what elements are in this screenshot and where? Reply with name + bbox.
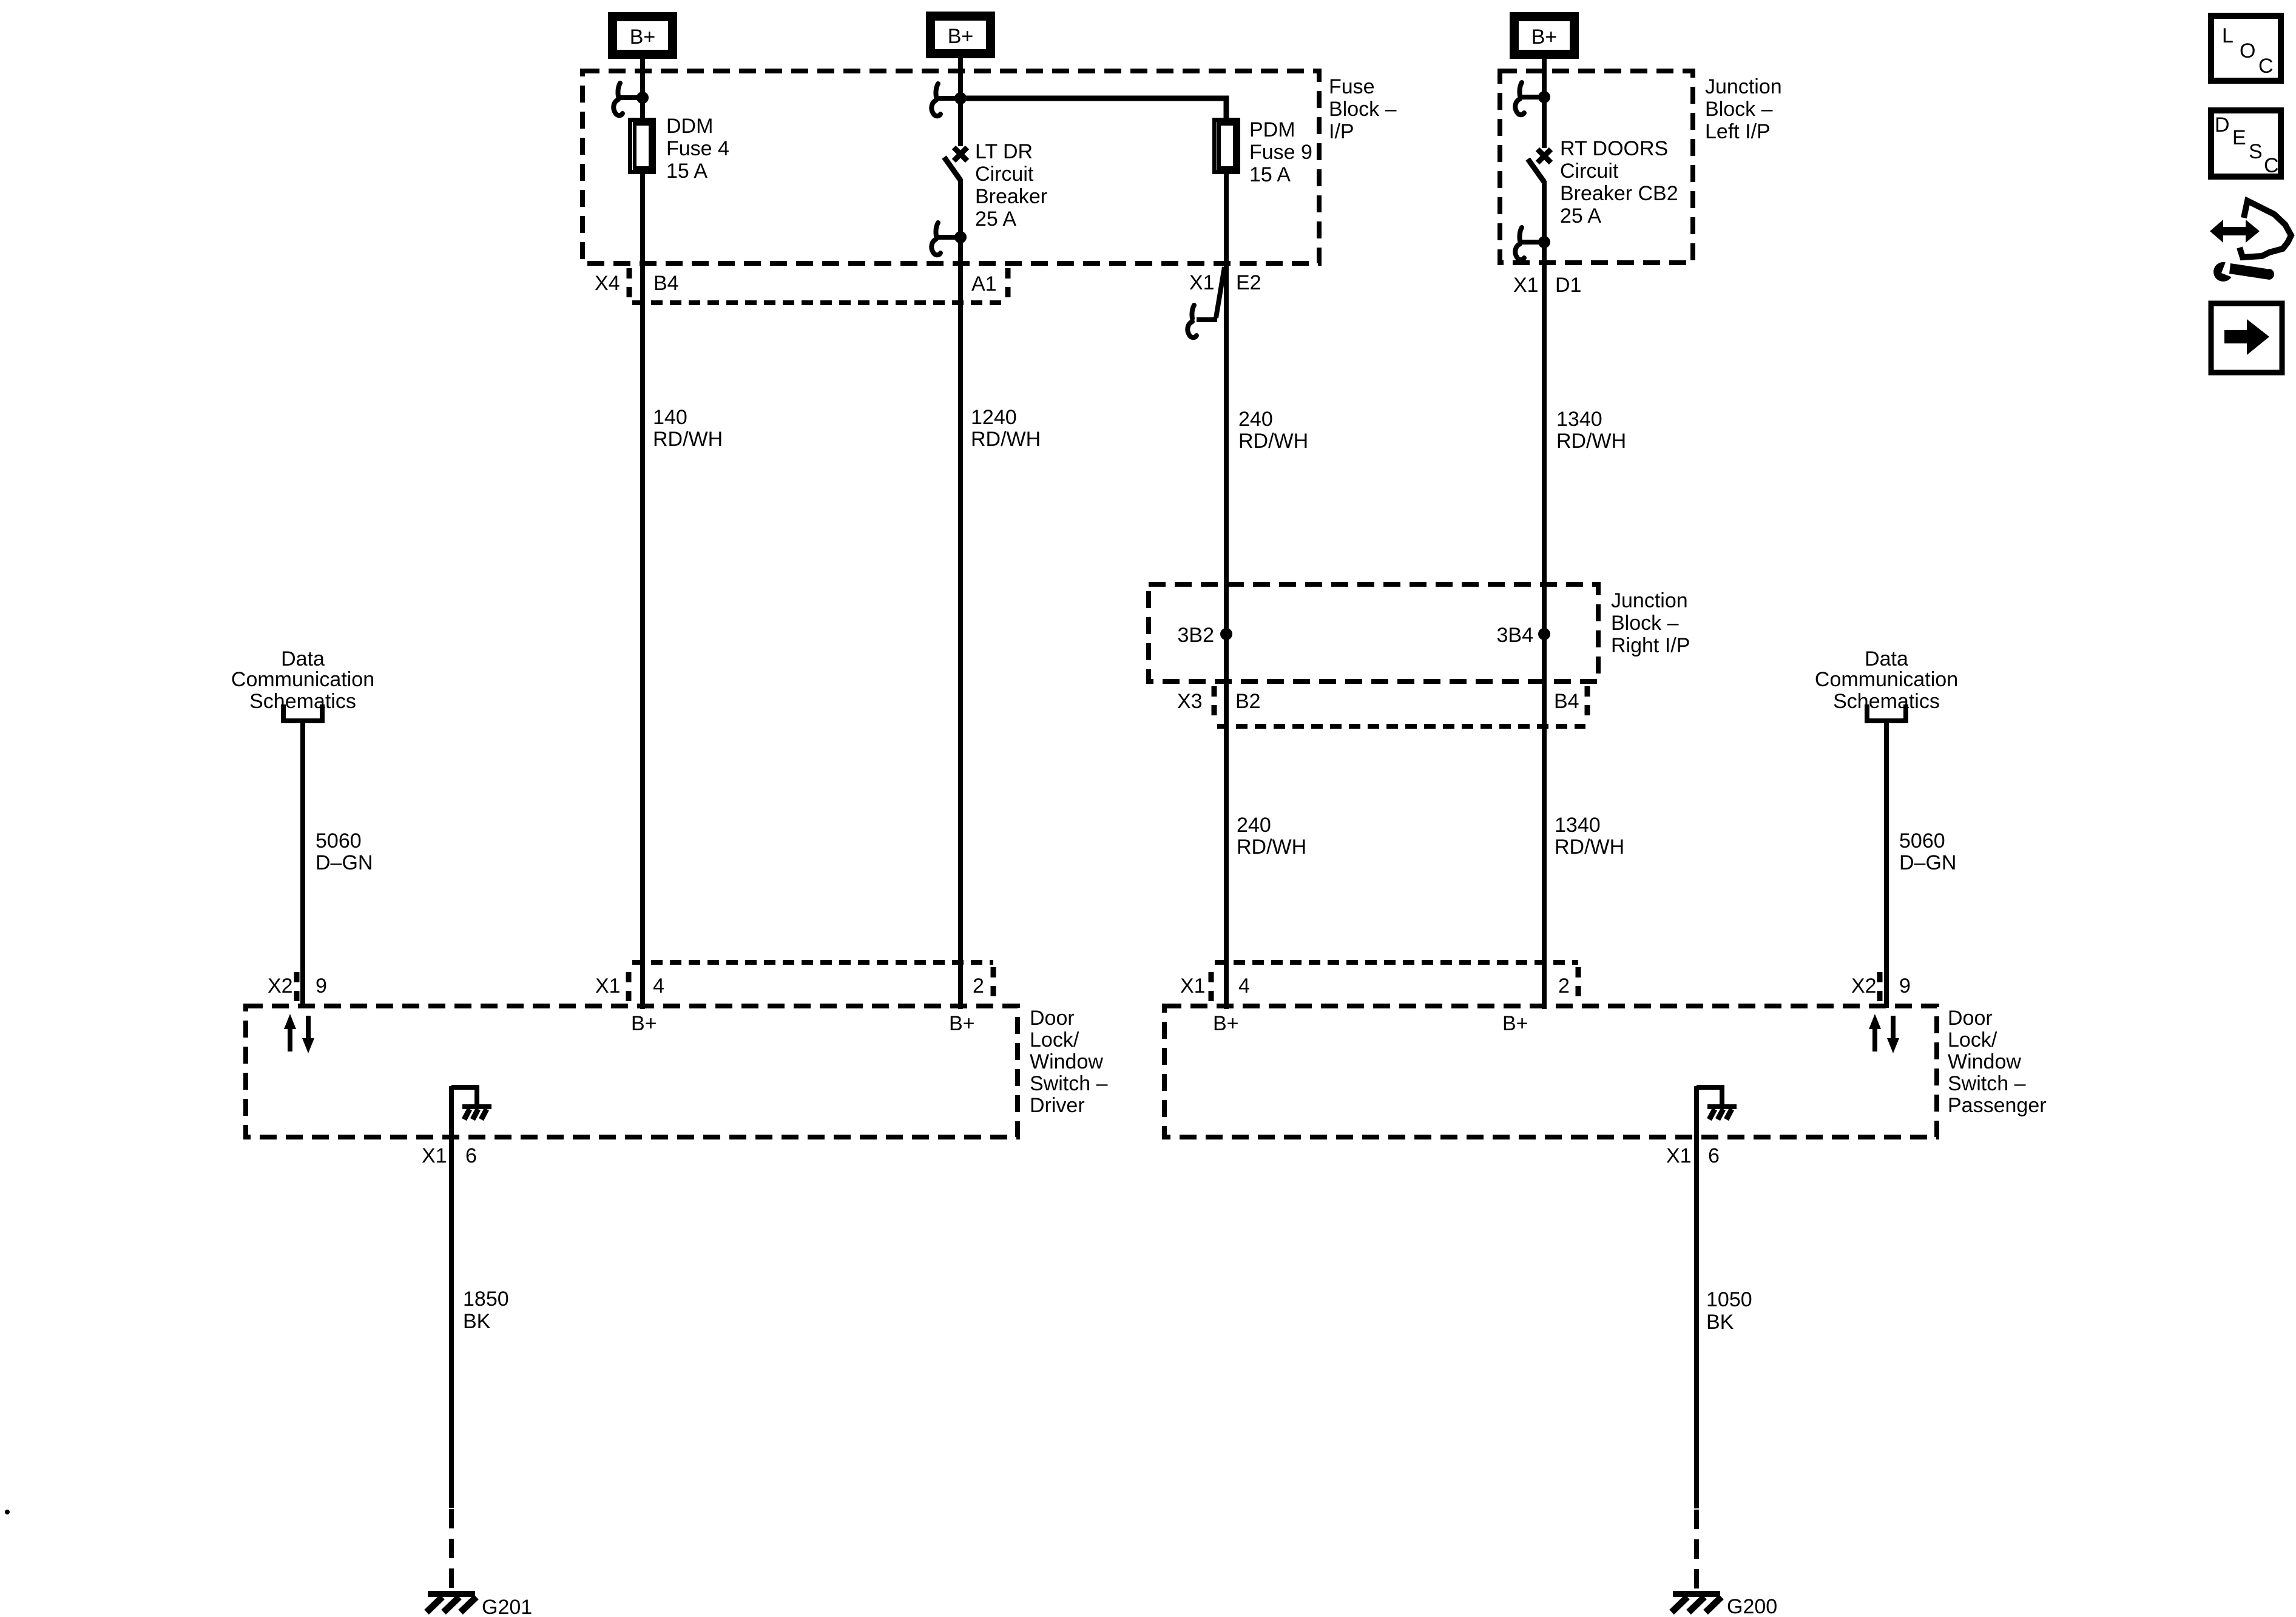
Door Lock/Window Switch - Passenger dashed outline bbox=[1164, 1006, 1937, 1137]
svg-text:X3: X3 bbox=[1177, 690, 1203, 713]
svg-text:B+: B+ bbox=[631, 1012, 657, 1035]
hook clip at LT DR breaker top bbox=[931, 84, 961, 116]
svg-text:C: C bbox=[2264, 154, 2279, 177]
B+ terminal 1 (DDM feed) bbox=[608, 12, 677, 59]
svg-text:2: 2 bbox=[1558, 974, 1570, 998]
svg-text:G200: G200 bbox=[1727, 1595, 1777, 1617]
junction dot at LT DR breaker bottom bbox=[954, 231, 967, 243]
svg-text:X2: X2 bbox=[1851, 974, 1877, 998]
svg-text:B+: B+ bbox=[630, 25, 656, 49]
circuit breaker LT DR 25 A (X mark and blade) bbox=[944, 147, 967, 180]
svg-text:4: 4 bbox=[1238, 974, 1250, 998]
svg-text:X1: X1 bbox=[1513, 274, 1539, 297]
circuit breaker RT DOORS CB2 25 A (X mark and blade) bbox=[1528, 149, 1551, 182]
ground G201 bbox=[427, 1591, 532, 1617]
Junction Block - Left I/P dashed outline bbox=[1500, 71, 1693, 263]
internal ground symbol in driver switch bbox=[451, 1087, 491, 1119]
reference Data Communication Schematics (right) bbox=[1815, 647, 1958, 721]
svg-text:B+: B+ bbox=[1531, 25, 1558, 49]
wire 140 RD/WH (B+ to DDM fuse to driver switch pin 4) bbox=[640, 59, 645, 119]
svg-text:B+: B+ bbox=[949, 1012, 975, 1035]
svg-text:X1: X1 bbox=[595, 974, 621, 998]
Door Lock/Window Switch - Driver dashed outline bbox=[246, 1006, 1018, 1137]
svg-text:B+: B+ bbox=[1502, 1012, 1528, 1035]
svg-text:6: 6 bbox=[465, 1144, 477, 1167]
hook clip at RT DOORS breaker bottom bbox=[1515, 228, 1544, 260]
svg-text:D: D bbox=[2215, 113, 2230, 137]
hook clip at DDM fuse feed bbox=[613, 83, 643, 115]
svg-text:B+: B+ bbox=[948, 25, 974, 48]
svg-text:X1: X1 bbox=[1180, 974, 1206, 998]
wire 1340 RD/WH upper segment (B+ to RT DOORS breaker) bbox=[1542, 58, 1547, 148]
svg-text:9: 9 bbox=[316, 974, 327, 998]
junction dot above DDM fuse bbox=[636, 92, 649, 104]
connector X1 above driver switch (dotted) bbox=[297, 962, 993, 1001]
in-line connector lead at fuse block X1 E2 bbox=[1187, 267, 1224, 337]
fuse PDM Fuse 9 15 A bbox=[1215, 120, 1238, 172]
svg-text:6: 6 bbox=[1708, 1144, 1720, 1167]
B+ terminal 2 (LT DR feed) bbox=[926, 12, 995, 58]
wire 1850 BK dashed segment bbox=[449, 1509, 454, 1592]
data arrows inside passenger switch bbox=[1869, 1014, 1899, 1053]
svg-text:JunctionBlock –Left I/P: JunctionBlock –Left I/P bbox=[1705, 75, 1782, 143]
node 3B2 bbox=[1178, 624, 1233, 647]
internal ground symbol in passenger switch bbox=[1697, 1087, 1737, 1119]
wire 240 RD/WH (PDM fuse to passenger switch pin 4) bbox=[1224, 173, 1229, 1009]
svg-text:C: C bbox=[2258, 55, 2274, 78]
wire 5060 D-GN (left) bbox=[300, 721, 305, 1008]
connector X4/A1 under fuse block (dotted) bbox=[629, 268, 1008, 303]
svg-text:E2: E2 bbox=[1236, 271, 1261, 294]
icon forward arrow box bbox=[2211, 303, 2282, 373]
B+ terminal 3 (RT DOORS feed) bbox=[1510, 12, 1579, 59]
svg-text:JunctionBlock –Right I/P: JunctionBlock –Right I/P bbox=[1611, 589, 1690, 657]
svg-text:B+: B+ bbox=[1213, 1012, 1239, 1035]
wire 1240 RD/WH lower segment (breaker to driver switch pin 2) bbox=[958, 179, 963, 1009]
junction dot at RT DOORS breaker top bbox=[1538, 91, 1550, 103]
svg-text:B4: B4 bbox=[1554, 690, 1579, 713]
branch wire to PDM fuse bbox=[961, 98, 1226, 119]
svg-text:4: 4 bbox=[653, 974, 664, 998]
Junction Block - Right I/P dashed outline bbox=[1149, 584, 1598, 681]
svg-text:X1: X1 bbox=[1189, 271, 1215, 294]
svg-text:B2: B2 bbox=[1235, 690, 1261, 713]
svg-text:G201: G201 bbox=[482, 1596, 532, 1617]
icon DESC box bbox=[2211, 110, 2281, 177]
Fuse Block - I/P dashed outline bbox=[582, 71, 1319, 263]
svg-text:3B4: 3B4 bbox=[1497, 624, 1534, 647]
svg-text:X2: X2 bbox=[268, 974, 293, 998]
svg-text:D1: D1 bbox=[1555, 274, 1581, 297]
connector X1 above passenger switch (dotted) bbox=[1211, 962, 1880, 1001]
stray page dot bbox=[5, 1510, 10, 1514]
svg-text:2: 2 bbox=[973, 974, 984, 998]
wire 5060 D-GN (right) bbox=[1884, 721, 1889, 1008]
junction dot at RT DOORS breaker bottom bbox=[1538, 236, 1550, 248]
wire 1240 RD/WH upper segment (B+ to LT DR breaker) bbox=[958, 58, 963, 146]
svg-text:A1: A1 bbox=[971, 272, 997, 295]
connector X3 under junction block right (dotted) bbox=[1214, 686, 1587, 726]
wire 1340 RD/WH lower segment (breaker to passenger switch pin 2) bbox=[1542, 181, 1547, 1009]
wire 1850 BK upper segment bbox=[449, 1086, 454, 1508]
svg-text:X4: X4 bbox=[595, 272, 620, 295]
wire 1050 BK dashed segment bbox=[1694, 1510, 1699, 1592]
data arrows inside driver switch bbox=[284, 1014, 314, 1053]
hook clip at LT DR breaker bottom bbox=[931, 223, 961, 255]
ground G200 bbox=[1672, 1591, 1777, 1617]
svg-text:3B2: 3B2 bbox=[1178, 624, 1215, 647]
fuse DDM Fuse 4 15 A bbox=[630, 120, 654, 172]
svg-text:9: 9 bbox=[1899, 974, 1911, 998]
svg-text:X1: X1 bbox=[422, 1144, 447, 1167]
svg-text:L: L bbox=[2222, 24, 2234, 47]
svg-text:B4: B4 bbox=[653, 272, 679, 295]
svg-text:S: S bbox=[2249, 140, 2263, 163]
hook clip at RT DOORS breaker top bbox=[1515, 83, 1544, 115]
svg-text:E: E bbox=[2232, 126, 2246, 149]
node 3B4 bbox=[1497, 624, 1551, 647]
junction dot at LT DR breaker top bbox=[954, 92, 967, 104]
svg-text:X1: X1 bbox=[1666, 1144, 1692, 1167]
reference Data Communication Schematics (left) bbox=[231, 647, 374, 721]
icon LOC box bbox=[2211, 16, 2281, 81]
svg-text:O: O bbox=[2240, 39, 2255, 62]
icon vehicle with double arrow and wrench bbox=[2210, 201, 2291, 282]
wire 1050 BK upper segment bbox=[1694, 1086, 1699, 1508]
